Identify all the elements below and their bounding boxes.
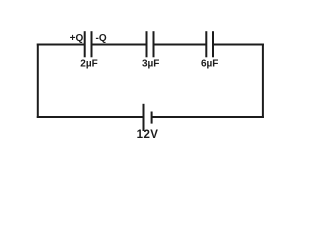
capacitor C3 (6uF) left plate: [205, 31, 207, 57]
svg-text:12V: 12V: [137, 129, 159, 141]
wire: left vertical side: [37, 44, 39, 119]
svg-text:3µF: 3µF: [142, 59, 159, 70]
capacitor C2 (3uF) right plate: [153, 31, 155, 57]
svg-text:-Q: -Q: [96, 33, 107, 44]
wire: top-left segment from top-left corner to C1 left plate: [37, 44, 85, 46]
wire: bottom-left segment from bottom-left corner to battery positive plate: [37, 116, 144, 118]
wire: top-right segment from C3 right plate to top-right corner: [213, 44, 264, 46]
svg-text:6µF: 6µF: [201, 59, 218, 70]
capacitor C3 (6uF) right plate: [212, 31, 214, 57]
capacitor C1 (2uF) right plate: [91, 31, 93, 57]
battery V1 short (negative) plate: [151, 112, 153, 124]
svg-text:2µF: 2µF: [80, 59, 97, 70]
wire: right vertical side: [262, 44, 264, 119]
svg-text:+Q: +Q: [70, 33, 84, 44]
wire: bottom-right segment from battery negative plate to bottom-right corner: [152, 116, 264, 118]
wire: top segment between C1 and C2: [92, 44, 147, 46]
battery V1 long (positive) plate: [143, 104, 145, 131]
capacitor C2 (3uF) left plate: [146, 31, 148, 57]
wire: top segment between C2 and C3: [154, 44, 207, 46]
capacitor C1 (2uF) left plate: [84, 31, 86, 57]
